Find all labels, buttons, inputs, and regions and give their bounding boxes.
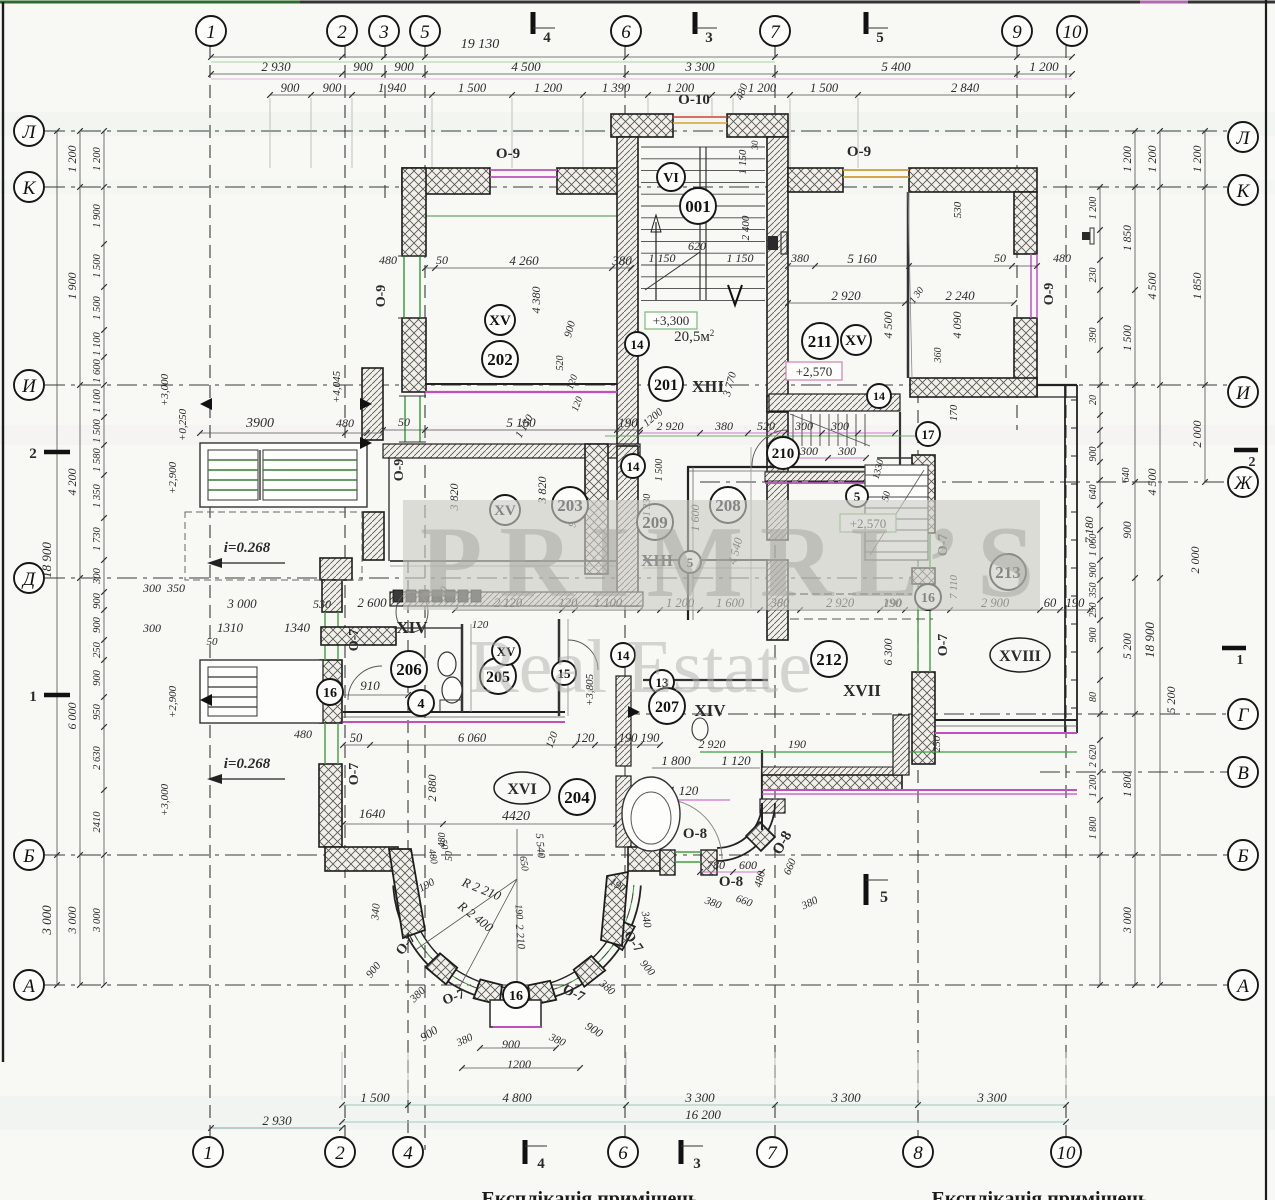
right small stair	[865, 465, 928, 560]
svg-text:1 200: 1 200	[65, 146, 79, 173]
svg-text:390: 390	[1088, 328, 1099, 344]
chain y302 room 211	[788, 302, 1014, 304]
svg-text:900: 900	[394, 59, 414, 74]
svg-text:2 210: 2 210	[513, 924, 527, 950]
window O-9 right wall (magenta)	[1030, 254, 1032, 318]
svg-text:18 900: 18 900	[1142, 622, 1157, 658]
room XVI walls	[321, 627, 396, 645]
svg-text:О-10: О-10	[678, 92, 710, 108]
center horizontal wall y592	[390, 592, 643, 606]
svg-text:XVI: XVI	[507, 781, 536, 798]
chain y265 room 211	[788, 265, 1037, 267]
svg-text:480: 480	[437, 833, 448, 848]
svg-text:1 800: 1 800	[1088, 817, 1099, 840]
svg-text:4420: 4420	[502, 809, 530, 824]
svg-text:17: 17	[922, 427, 936, 442]
svg-text:14: 14	[873, 389, 885, 403]
axis circles right	[1228, 122, 1258, 152]
svg-text:202: 202	[487, 350, 513, 369]
svg-text:1 940: 1 940	[378, 81, 407, 95]
svg-text:16: 16	[323, 686, 337, 701]
room 203 left face	[388, 458, 390, 561]
svg-text:1: 1	[203, 1143, 213, 1164]
svg-text:3 000: 3 000	[226, 596, 257, 611]
svg-text:9: 9	[1012, 22, 1022, 43]
svg-text:4 800: 4 800	[502, 1090, 532, 1105]
window O-9 top-right (orange)	[843, 169, 909, 171]
svg-text:900: 900	[1088, 563, 1099, 578]
bottom dimension chains	[211, 1127, 342, 1129]
svg-text:300: 300	[799, 444, 818, 458]
svg-text:К: К	[1236, 181, 1251, 202]
svg-text:Б: Б	[22, 846, 34, 867]
svg-text:120: 120	[576, 731, 596, 745]
svg-text:300: 300	[794, 419, 813, 433]
svg-text:50: 50	[350, 731, 363, 745]
svg-text:640: 640	[1121, 468, 1132, 483]
svg-text:620: 620	[688, 239, 706, 253]
window O-9 top-left (magenta)	[490, 169, 557, 171]
svg-text:О-9: О-9	[847, 144, 871, 160]
svg-text:XIII: XIII	[692, 377, 725, 396]
svg-text:520: 520	[757, 419, 775, 433]
svg-text:30: 30	[750, 140, 760, 151]
svg-text:520: 520	[555, 356, 566, 371]
svg-text:900: 900	[1088, 628, 1099, 643]
chain right of bay y872	[700, 871, 762, 873]
bay hatched posts	[426, 953, 458, 984]
axis grid: horizontal dash-dot lines	[45, 130, 1232, 132]
svg-text:+2,900: +2,900	[167, 461, 179, 494]
svg-text:190: 190	[618, 415, 638, 430]
thin wall y561	[390, 560, 617, 562]
XVI bottom-left corner wall	[325, 847, 398, 871]
svg-text:Експлікація приміщень: Експлікація приміщень	[932, 1188, 1149, 1200]
svg-text:4 500: 4 500	[1145, 273, 1159, 300]
svg-text:480: 480	[294, 727, 312, 741]
partitions rooms 205/206	[461, 624, 464, 712]
svg-text:3 300: 3 300	[684, 1090, 715, 1105]
svg-text:4 500: 4 500	[881, 312, 895, 339]
svg-text:14: 14	[627, 459, 641, 474]
right wing bottom wall	[935, 719, 1077, 721]
svg-text:16: 16	[509, 989, 523, 1004]
svg-text:1 200: 1 200	[1145, 146, 1159, 173]
svg-text:1 120: 1 120	[721, 753, 751, 768]
svg-text:1: 1	[29, 689, 37, 705]
section marker 5 mid-right	[864, 874, 869, 905]
svg-text:300: 300	[830, 419, 849, 433]
bathroom walls	[761, 750, 763, 800]
svg-text:1 500: 1 500	[458, 81, 487, 95]
stair arrow	[655, 222, 657, 300]
svg-text:50: 50	[398, 415, 410, 429]
svg-text:XV: XV	[845, 333, 867, 349]
corridor small stair (treads vertical)	[792, 414, 794, 446]
svg-text:2 600: 2 600	[357, 595, 387, 610]
vertical wall right of bath	[761, 803, 763, 830]
svg-text:Експлікація приміщень: Експлікація приміщень	[482, 1188, 699, 1200]
svg-text:210: 210	[772, 446, 795, 462]
svg-text:3 000: 3 000	[1122, 907, 1134, 934]
section markers top	[531, 12, 536, 34]
svg-text:1 500: 1 500	[1122, 325, 1134, 351]
svg-text:190: 190	[788, 737, 806, 751]
svg-text:В: В	[1237, 763, 1249, 784]
svg-text:2 400: 2 400	[740, 215, 752, 240]
svg-text:+2,570: +2,570	[796, 364, 833, 379]
svg-text:3 300: 3 300	[976, 1090, 1007, 1105]
svg-text:204: 204	[564, 788, 590, 807]
svg-text:1 200: 1 200	[748, 81, 777, 95]
svg-text:О-7: О-7	[347, 629, 362, 652]
svg-text:2 000: 2 000	[1188, 547, 1202, 574]
svg-text:XVII: XVII	[843, 681, 881, 700]
svg-text:О-8: О-8	[719, 874, 743, 890]
svg-text:+3,000: +3,000	[159, 373, 171, 406]
svg-text:Б: Б	[1236, 846, 1248, 867]
wall y394 (under 202)	[425, 383, 617, 385]
svg-text:50: 50	[436, 253, 448, 267]
svg-text:7: 7	[767, 1143, 778, 1164]
svg-text:4: 4	[543, 30, 551, 46]
svg-text:360: 360	[933, 348, 944, 364]
svg-text:3 000: 3 000	[65, 907, 79, 935]
right dimension chains	[1099, 187, 1101, 985]
extension stubs bottom	[341, 1052, 343, 1100]
svg-text:1 350: 1 350	[92, 483, 103, 507]
svg-text:2 920: 2 920	[657, 419, 684, 433]
svg-text:7: 7	[770, 22, 781, 43]
svg-text:VI: VI	[663, 171, 679, 186]
svg-text:250: 250	[931, 735, 943, 752]
window O-7 left	[324, 612, 326, 660]
svg-text:XVIII: XVIII	[999, 648, 1041, 665]
scan tint bands	[0, 112, 1275, 136]
svg-text:+4,045: +4,045	[331, 370, 343, 403]
svg-text:10: 10	[1063, 22, 1083, 43]
svg-text:20: 20	[1088, 395, 1099, 405]
bay window arc walls	[393, 886, 641, 1003]
svg-text:5: 5	[876, 30, 884, 46]
wall between 212/XVII	[788, 593, 912, 595]
svg-text:50: 50	[444, 851, 455, 861]
svg-text:О-7: О-7	[347, 763, 362, 786]
svg-text:212: 212	[816, 650, 842, 669]
bay left straight wall	[389, 849, 425, 938]
svg-text:1 200: 1 200	[92, 146, 103, 170]
corridor top wall y444	[383, 444, 640, 458]
svg-text:1 850: 1 850	[1122, 225, 1134, 251]
interior dim chain y428	[383, 429, 640, 431]
svg-text:1 800: 1 800	[1122, 771, 1134, 797]
svg-text:3: 3	[705, 30, 713, 46]
svg-text:6 000: 6 000	[65, 703, 79, 730]
left dimension chains	[56, 131, 58, 985]
svg-text:910: 910	[360, 678, 380, 693]
svg-text:2 920: 2 920	[831, 288, 861, 303]
svg-text:4: 4	[418, 697, 425, 712]
corridor right wall	[767, 396, 788, 412]
XVII bottom wall	[762, 767, 902, 775]
svg-text:900: 900	[353, 59, 373, 74]
svg-text:230: 230	[1088, 268, 1099, 283]
svg-text:10: 10	[1057, 1143, 1077, 1164]
svg-text:16 200: 16 200	[685, 1107, 721, 1122]
svg-text:1200: 1200	[507, 1057, 531, 1071]
svg-text:2410: 2410	[92, 811, 103, 833]
svg-text:PRIMRL’S: PRIMRL’S	[420, 506, 1051, 619]
svg-text:і=0.268: і=0.268	[224, 540, 271, 556]
svg-text:1 900: 1 900	[65, 273, 79, 300]
svg-text:і=0.268: і=0.268	[224, 756, 271, 772]
svg-text:201: 201	[654, 377, 678, 394]
svg-text:900: 900	[92, 616, 103, 633]
external stair top (ramp)	[200, 443, 367, 507]
svg-text:6 060: 6 060	[458, 731, 487, 745]
left exterior walls (ramps area)	[362, 368, 383, 440]
svg-text:2 930: 2 930	[261, 59, 291, 74]
svg-text:7 180: 7 180	[1082, 517, 1096, 544]
svg-text:001: 001	[685, 197, 711, 216]
walls: room 202 top-left	[402, 168, 490, 194]
extension stubs top	[269, 98, 271, 168]
dark door blocks	[768, 236, 778, 250]
chain y744	[343, 744, 660, 746]
svg-text:190: 190	[1066, 596, 1086, 610]
svg-text:А: А	[21, 976, 35, 997]
svg-text:340: 340	[369, 902, 383, 921]
svg-text:1 100: 1 100	[92, 331, 103, 355]
svg-text:4: 4	[537, 1156, 545, 1172]
sink 206	[396, 592, 428, 632]
center vertical wall x585	[585, 444, 608, 574]
svg-text:1 500: 1 500	[810, 81, 839, 95]
svg-text:5 160: 5 160	[847, 251, 877, 266]
room 211 inner partition	[907, 192, 910, 378]
svg-text:1310: 1310	[217, 620, 244, 635]
svg-text:2: 2	[337, 22, 347, 43]
section marker 2 left	[44, 450, 70, 455]
svg-text:380: 380	[611, 253, 632, 268]
svg-text:170: 170	[948, 404, 960, 421]
svg-text:190: 190	[619, 731, 639, 745]
svg-text:300: 300	[837, 444, 856, 458]
svg-text:1 150: 1 150	[737, 149, 749, 174]
svg-text:5: 5	[880, 889, 888, 906]
room label circles	[485, 305, 515, 335]
toilet 206	[438, 652, 456, 676]
svg-text:1 100: 1 100	[92, 388, 103, 412]
svg-text:4 200: 4 200	[65, 469, 79, 496]
svg-text:Л: Л	[22, 122, 37, 143]
svg-text:2 630: 2 630	[92, 745, 103, 769]
svg-text:О-9: О-9	[1042, 283, 1057, 306]
svg-text:350: 350	[1088, 583, 1099, 599]
svg-text:3: 3	[378, 22, 389, 43]
svg-text:+3,000: +3,000	[159, 783, 171, 816]
svg-text:900: 900	[92, 669, 103, 686]
svg-text:1 200: 1 200	[1190, 146, 1204, 173]
magenta chain y432 corridor	[640, 432, 895, 434]
svg-text:2: 2	[29, 446, 37, 462]
svg-text:Л: Л	[1236, 128, 1251, 149]
svg-text:3900: 3900	[245, 416, 274, 431]
axis circles left	[14, 116, 44, 146]
svg-text:300: 300	[142, 581, 161, 595]
svg-text:2 620: 2 620	[1088, 745, 1099, 768]
svg-text:5 200: 5 200	[1164, 687, 1178, 714]
svg-text:+2,900: +2,900	[167, 685, 179, 718]
bay bottom porch step	[490, 1000, 541, 1027]
svg-text:5: 5	[420, 22, 430, 43]
svg-text:Г: Г	[1237, 705, 1250, 726]
svg-text:3 000: 3 000	[92, 907, 103, 932]
svg-text:+0,250: +0,250	[177, 408, 189, 441]
svg-text:50: 50	[207, 636, 219, 648]
wc top line	[396, 627, 462, 629]
svg-text:190: 190	[512, 904, 524, 920]
svg-text:1 200: 1 200	[1122, 146, 1134, 172]
svg-text:XIV: XIV	[396, 618, 428, 637]
svg-text:4 500: 4 500	[511, 59, 541, 74]
right wing windows O-7	[917, 533, 919, 568]
bay radius lines	[416, 879, 517, 950]
svg-text:350: 350	[166, 581, 185, 595]
svg-text:20,5м: 20,5м	[674, 329, 710, 345]
svg-text:4 380: 4 380	[529, 287, 543, 314]
svg-text:640: 640	[1088, 485, 1099, 500]
svg-text:250: 250	[92, 641, 103, 658]
svg-text:1 500: 1 500	[654, 459, 665, 482]
svg-text:600: 600	[739, 858, 757, 872]
small walls near stair 210	[899, 412, 901, 465]
svg-text:2: 2	[710, 328, 715, 338]
svg-text:О-9: О-9	[496, 146, 520, 162]
svg-text:300: 300	[92, 567, 103, 585]
section marker 2 right	[1234, 448, 1258, 453]
svg-text:1 200: 1 200	[1029, 59, 1059, 74]
svg-text:1 500: 1 500	[92, 253, 103, 277]
entry tower walls	[611, 114, 673, 137]
elevation boxed labels	[645, 312, 697, 329]
svg-text:4 260: 4 260	[509, 253, 539, 268]
ramp dashed area	[185, 512, 362, 580]
axis circles bottom	[193, 1137, 223, 1167]
svg-text:1 850: 1 850	[1190, 273, 1204, 300]
svg-text:2 000: 2 000	[1190, 421, 1204, 448]
long chain y609	[455, 609, 1090, 611]
svg-text:530: 530	[313, 597, 331, 611]
svg-text:6: 6	[621, 22, 631, 43]
svg-text:6 300: 6 300	[881, 639, 895, 666]
elevation marks	[360, 398, 372, 410]
entry staircase treads	[641, 146, 765, 148]
XVII dashed line	[790, 618, 933, 620]
axis circles top	[196, 16, 226, 46]
svg-text:1 200: 1 200	[1088, 197, 1099, 220]
section marker 1 left	[44, 693, 70, 698]
svg-text:900: 900	[92, 592, 103, 609]
svg-text:3 000: 3 000	[39, 905, 54, 936]
green line corridor y436	[605, 435, 930, 437]
stair descend mark V	[728, 285, 742, 305]
svg-text:380: 380	[714, 419, 733, 433]
svg-text:4 500: 4 500	[1145, 469, 1159, 496]
walls: room 211 top-right	[788, 168, 843, 192]
svg-text:2 240: 2 240	[945, 288, 975, 303]
svg-text:К: К	[22, 178, 37, 199]
svg-text:1: 1	[1237, 653, 1244, 668]
svg-text:1 150: 1 150	[727, 251, 754, 265]
svg-text:480: 480	[1053, 251, 1071, 265]
svg-text:5 400: 5 400	[881, 59, 911, 74]
svg-text:И: И	[1235, 383, 1251, 404]
svg-text:190: 190	[641, 731, 661, 745]
svg-text:2: 2	[335, 1143, 345, 1164]
svg-text:206: 206	[396, 660, 422, 679]
tower left wall extension	[617, 446, 638, 606]
svg-text:XV: XV	[489, 313, 511, 329]
svg-text:80: 80	[1088, 692, 1099, 702]
radiator row	[393, 590, 403, 602]
svg-text:1 150: 1 150	[649, 251, 676, 265]
svg-text:А: А	[1235, 976, 1249, 997]
bathtub	[622, 777, 680, 851]
svg-text:8: 8	[913, 1143, 923, 1164]
svg-text:О-9: О-9	[374, 285, 389, 308]
svg-text:1: 1	[206, 22, 216, 43]
svg-text:+3,300: +3,300	[653, 313, 690, 328]
svg-text:О-7: О-7	[936, 634, 951, 657]
right wing 213 walls	[1037, 384, 1077, 386]
small arc R1120	[662, 799, 722, 859]
svg-text:1640: 1640	[359, 806, 386, 821]
svg-text:1 390: 1 390	[602, 81, 631, 95]
svg-text:4 090: 4 090	[950, 312, 964, 339]
svg-text:780: 780	[707, 858, 725, 872]
window O-10	[673, 116, 727, 118]
svg-text:900: 900	[502, 1037, 520, 1051]
svg-text:1 200: 1 200	[1088, 775, 1099, 798]
green inner face line room 202	[426, 215, 617, 217]
right wing right wall (thin)	[1064, 385, 1066, 733]
XVI bottom-right corner wall	[628, 847, 660, 871]
svg-text:5 540: 5 540	[533, 833, 547, 859]
window O-9 left wall	[403, 256, 405, 318]
svg-text:19 130: 19 130	[461, 37, 500, 52]
svg-text:6: 6	[618, 1143, 628, 1164]
svg-text:1 800: 1 800	[661, 753, 691, 768]
room 208 top wall y467	[687, 466, 869, 468]
svg-text:1 900: 1 900	[92, 203, 103, 227]
svg-text:900: 900	[323, 81, 343, 95]
external stair bottom	[200, 660, 323, 723]
axis grid: vertical dashed lines	[209, 45, 211, 1150]
svg-text:Д: Д	[21, 569, 36, 590]
window O-9 left second	[404, 396, 406, 442]
svg-text:1 600: 1 600	[92, 358, 103, 382]
svg-text:380: 380	[790, 251, 809, 265]
svg-text:480: 480	[379, 253, 397, 267]
svg-text:И: И	[21, 376, 37, 397]
svg-text:О-9: О-9	[392, 459, 407, 482]
svg-text:14: 14	[631, 337, 645, 352]
svg-text:2 880: 2 880	[425, 775, 439, 802]
svg-text:300: 300	[142, 621, 161, 635]
svg-text:Real Estate: Real Estate	[468, 625, 812, 709]
interior dim chain y268	[425, 267, 631, 269]
